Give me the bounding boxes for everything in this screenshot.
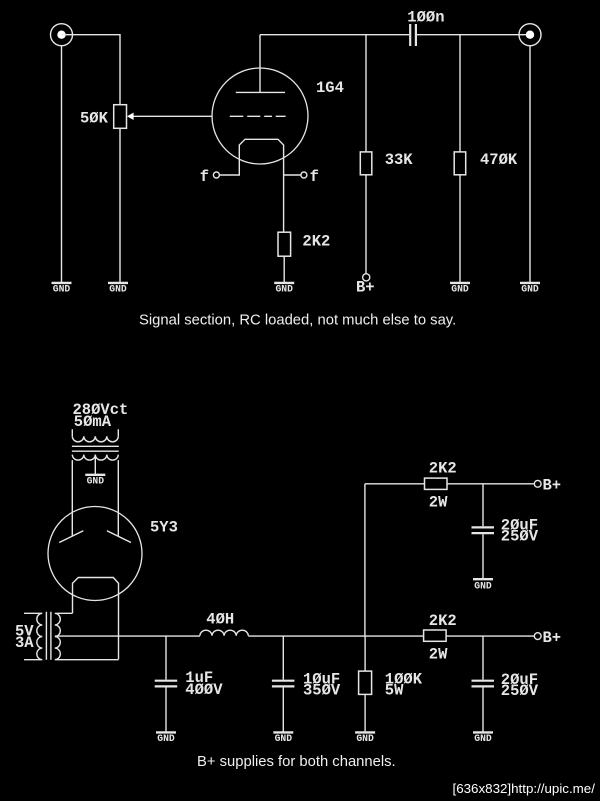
svg-text:2K2: 2K2 xyxy=(302,233,330,251)
wire pot bottom to ground xyxy=(119,128,121,282)
svg-text:[636x832]http://upic.me/: [636x832]http://upic.me/ xyxy=(453,781,596,796)
transformer T1 secondary winding xyxy=(72,455,118,461)
svg-text:GND: GND xyxy=(521,284,539,295)
input terminal J1 xyxy=(51,24,73,46)
svg-text:5Y3: 5Y3 xyxy=(150,519,178,537)
wire cap to output terminal xyxy=(417,34,530,36)
filament tap right xyxy=(284,174,301,176)
filament terminal f left xyxy=(200,168,220,186)
svg-text:47ØK: 47ØK xyxy=(480,151,518,169)
capacitor C5 20uF lower xyxy=(472,636,495,732)
filament arch of 5Y3 xyxy=(73,578,119,660)
wire input to pot top xyxy=(62,35,121,105)
svg-text:1ØØn: 1ØØn xyxy=(407,9,444,27)
ground GND10 xyxy=(473,579,493,591)
filament terminal f right xyxy=(301,168,319,186)
upper B+ rail xyxy=(365,483,425,485)
capacitor C3 10uF xyxy=(272,636,295,732)
ground GND5 xyxy=(520,283,540,295)
svg-text:35ØV: 35ØV xyxy=(303,682,341,700)
coupling capacitor C1 100n xyxy=(407,9,444,46)
svg-text:33K: 33K xyxy=(385,151,414,169)
transformer T1 primary stubs xyxy=(72,429,118,436)
svg-text:GND: GND xyxy=(53,284,71,295)
transformer T2 core xyxy=(46,612,51,660)
potentiometer wiper arrow xyxy=(127,113,213,120)
riser wire to upper B+ rail xyxy=(364,484,366,636)
potentiometer R1 50K body xyxy=(114,105,127,129)
B+ rail from center tap xyxy=(55,635,200,637)
svg-text:GND: GND xyxy=(474,733,492,744)
resistor R7 2K2 body lower xyxy=(424,630,447,641)
svg-text:2K2: 2K2 xyxy=(429,459,457,477)
resistor R3 33K branch wire top xyxy=(365,35,367,152)
wire secondary right to rectifier plate xyxy=(117,460,119,536)
resistor R4 470K branch wire xyxy=(459,35,461,152)
svg-text:Signal section, RC loaded, not: Signal section, RC loaded, not much else… xyxy=(139,312,456,328)
ground GND4 xyxy=(450,283,470,295)
B+ output terminal 1 xyxy=(534,477,561,495)
svg-text:GND: GND xyxy=(356,733,374,744)
transformer T2 left winding xyxy=(24,613,42,659)
plate lead up xyxy=(259,35,261,93)
wire plate to coupling cap xyxy=(260,34,409,36)
svg-text:1G4: 1G4 xyxy=(316,79,344,97)
resistor R6 2K2 body xyxy=(425,478,448,489)
svg-text:25ØV: 25ØV xyxy=(501,528,539,546)
svg-text:3A: 3A xyxy=(15,634,34,652)
svg-text:B+: B+ xyxy=(543,477,562,495)
svg-text:4ØØV: 4ØØV xyxy=(185,681,223,699)
wire 33K to B+ terminal xyxy=(365,175,367,274)
B+ rail after choke xyxy=(248,635,423,637)
svg-text:B+ supplies for both channels.: B+ supplies for both channels. xyxy=(197,754,396,770)
resistor R5 100K wire xyxy=(364,636,366,671)
triode U1 envelope xyxy=(212,68,308,164)
ground GND1 xyxy=(52,283,72,295)
wire 470K to ground xyxy=(459,175,461,282)
ground GND8 xyxy=(273,732,293,744)
wire secondary left to rectifier plate xyxy=(71,460,73,536)
wire output terminal down xyxy=(529,45,531,282)
B+ output terminal 2 xyxy=(534,629,561,647)
rectifier U2 envelope xyxy=(48,507,142,601)
ground GND11 xyxy=(473,732,493,744)
svg-text:25ØV: 25ØV xyxy=(501,682,539,700)
resistor R4 470K body xyxy=(454,152,466,175)
svg-text:2K2: 2K2 xyxy=(429,612,457,630)
svg-text:B+: B+ xyxy=(543,629,562,647)
svg-text:GND: GND xyxy=(157,733,175,744)
svg-text:GND: GND xyxy=(109,284,127,295)
transformer T2 right winding xyxy=(55,613,119,659)
svg-text:GND: GND xyxy=(474,581,492,592)
transformer T1 core xyxy=(72,446,119,451)
wire 2K2 to ground xyxy=(283,256,285,282)
svg-text:5ØK: 5ØK xyxy=(80,109,109,127)
wire 100K to ground xyxy=(364,694,366,731)
choke L1 40H xyxy=(200,630,248,636)
resistor R5 100K body xyxy=(359,671,372,694)
wire input down to ground xyxy=(61,45,63,282)
capacitor C4 20uF xyxy=(472,484,495,579)
svg-text:2W: 2W xyxy=(429,646,448,664)
transformer T1 primary winding xyxy=(72,436,118,442)
resistor R3 33K body xyxy=(360,152,372,175)
svg-text:B+: B+ xyxy=(356,279,375,297)
svg-text:f: f xyxy=(310,168,319,186)
filament arch of 1G4 xyxy=(220,139,284,232)
svg-text:4ØH: 4ØH xyxy=(206,610,234,628)
ground GND7 xyxy=(156,732,176,744)
svg-text:5W: 5W xyxy=(385,682,404,700)
resistor R2 2K2 body xyxy=(278,232,291,256)
ground GND3 xyxy=(274,283,294,295)
svg-text:2W: 2W xyxy=(429,493,448,511)
right plate of 5Y3 xyxy=(107,531,131,543)
capacitor C2 1uF xyxy=(155,636,178,732)
svg-text:GND: GND xyxy=(275,284,293,295)
svg-text:5ØmA: 5ØmA xyxy=(74,413,112,431)
grid dashed line xyxy=(230,115,286,117)
output terminal J2 xyxy=(519,24,541,46)
wire 2K2 to B+ output 2 xyxy=(446,635,534,637)
ground GND6 center tap xyxy=(85,475,105,487)
left plate of 5Y3 xyxy=(59,531,83,543)
svg-text:f: f xyxy=(200,168,209,186)
svg-text:GND: GND xyxy=(275,733,293,744)
ground GND2 xyxy=(108,283,128,295)
ground GND9 xyxy=(355,732,375,744)
wire 2K2 to B+ output 1 xyxy=(447,483,534,485)
svg-text:GND: GND xyxy=(451,284,469,295)
plate of 1G4 xyxy=(236,91,285,93)
center tap wire to ground xyxy=(94,455,96,474)
svg-text:GND: GND xyxy=(87,476,105,487)
B+ terminal top section xyxy=(356,274,375,297)
